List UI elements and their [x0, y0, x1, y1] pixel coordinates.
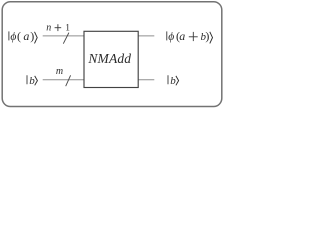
svg-text:): ) [30, 29, 34, 43]
border frame [2, 2, 222, 107]
wire top-right segment [138, 35, 154, 37]
node ket |b> bottom-right output [168, 75, 179, 87]
bus slash on top wire [63, 33, 69, 44]
node ket |phi(a)> top-left input [9, 29, 37, 44]
svg-text:ϕ: ϕ [168, 31, 174, 43]
svg-text:a: a [23, 29, 29, 43]
svg-text:m: m [56, 66, 63, 77]
bus width label n+1 [46, 22, 70, 33]
svg-text:1: 1 [65, 23, 70, 33]
svg-text:NMAdd: NMAdd [87, 51, 131, 66]
wire bottom-left segment [43, 79, 84, 81]
svg-text:b: b [29, 75, 35, 87]
svg-text:b: b [170, 75, 176, 87]
wire bottom-right segment [138, 79, 154, 81]
svg-text:n: n [46, 22, 51, 33]
bus slash on bottom wire [66, 75, 71, 86]
svg-text:ϕ: ϕ [10, 31, 16, 43]
svg-text:(: ( [17, 29, 21, 43]
node ket |b> bottom-left input [27, 75, 37, 87]
svg-text:): ) [205, 29, 209, 43]
node ket |phi(a+b)> top-right output [167, 29, 213, 44]
svg-text:a: a [179, 29, 185, 43]
gate box NMAdd [84, 31, 138, 87]
wire top-left segment [43, 35, 84, 37]
